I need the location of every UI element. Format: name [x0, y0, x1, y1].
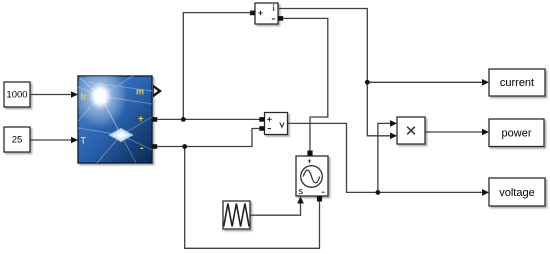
- svg-text:Ir: Ir: [81, 92, 88, 102]
- wire branch to current display: [367, 81, 482, 83]
- voltage measurement block (voltmeter): [265, 113, 288, 135]
- wire PV- node to voltmeter - (with jog): [157, 129, 259, 147]
- PV output port nub +: [152, 117, 157, 122]
- source top port nub: [307, 151, 312, 157]
- junction node current signal: [365, 80, 370, 85]
- controlled voltage source block: [296, 156, 328, 196]
- PV unconnected output port m (chevron): [153, 85, 162, 98]
- wire 25 to PV T input: [30, 137, 78, 144]
- display block power: [489, 119, 544, 147]
- svg-text:current: current: [500, 77, 534, 89]
- svg-text:+: +: [138, 114, 144, 125]
- junction node PV-: [182, 144, 187, 149]
- wire branch down to product input 2: [367, 82, 390, 136]
- svg-text:voltage: voltage: [499, 187, 534, 199]
- wire ammeter i output to current display and product: [278, 9, 367, 83]
- svg-text:T: T: [81, 136, 87, 146]
- constant block 25 (temperature): [4, 127, 30, 152]
- svg-text:power: power: [502, 128, 532, 140]
- product block (multiply): [397, 117, 425, 144]
- svg-text:-: -: [140, 142, 144, 154]
- svg-text:1000: 1000: [6, 90, 27, 101]
- constant block 1000 (irradiance): [4, 82, 30, 107]
- sawtooth generator block (repeating sequence): [223, 201, 250, 229]
- voltmeter - port nub: [259, 126, 264, 131]
- wire PV+ node to voltmeter + (horizontal): [157, 118, 260, 120]
- ammeter right port nub: [278, 16, 283, 21]
- wire branch up to product input 1: [378, 123, 391, 192]
- PV array block U1 (solar panel): [78, 76, 152, 163]
- wire voltmeter v output to voltage display: [288, 123, 483, 192]
- wire PV+ node branch up to ammeter: [183, 13, 250, 120]
- junction node PV+: [181, 117, 186, 122]
- voltmeter + port nub: [259, 117, 264, 122]
- current measurement block (ammeter): [255, 3, 278, 24]
- source bottom right port nub: [317, 196, 322, 202]
- junction node voltage signal: [376, 190, 381, 195]
- wire ammeter - terminal to source + terminal (jog): [283, 18, 328, 150]
- ammeter left port nub: [250, 11, 255, 16]
- wire product output to power display: [425, 131, 483, 133]
- svg-text:m: m: [136, 87, 144, 97]
- svg-text:25: 25: [12, 135, 23, 146]
- PV output port nub -: [152, 144, 157, 149]
- wire PV- node loop down to source - terminal: [185, 147, 320, 249]
- wire 1000 to PV Ir input: [30, 91, 78, 98]
- wire sawtooth to source s input: [250, 204, 301, 216]
- display block current: [489, 69, 545, 96]
- display block voltage: [489, 178, 545, 206]
